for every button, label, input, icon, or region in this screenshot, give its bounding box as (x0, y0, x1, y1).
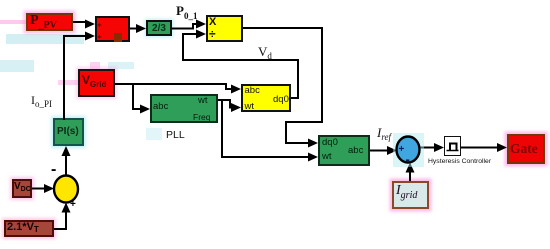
arrowhead into Gate (497, 143, 507, 152)
compression artifact smudge near PLL label (146, 128, 162, 140)
label Gate (510, 142, 538, 156)
arrowhead up into PI(s) bottom (62, 146, 71, 156)
wire PLL wt to abc-dq0 wt input (218, 100, 236, 108)
node label P_0_1 (176, 4, 197, 21)
wire I_grid up to blue circle (409, 167, 411, 181)
svg-text:-: - (51, 161, 56, 178)
wire blue circle to hysteresis (419, 147, 439, 149)
wire 2/3 to divider X input (172, 24, 200, 29)
arrowhead into dq0-abc wt input (308, 153, 318, 162)
arrowhead into divider ÷ (196, 30, 206, 39)
wire hysteresis to Gate (461, 147, 502, 149)
svg-text:-: - (406, 152, 410, 167)
arrowhead into dq0-abc dq0 input (308, 139, 318, 148)
label ÷ of divide (209, 28, 216, 40)
port label abc (348, 146, 363, 156)
gain block 2/3 (146, 20, 172, 36)
glow behind blue circle (393, 133, 424, 167)
compression artifact smudge lower (0, 60, 34, 72)
node label V_d (258, 45, 272, 61)
arrowhead into abc-dq0 abc input (231, 85, 241, 94)
hysteresis controller block (444, 136, 461, 156)
hysteresis relay icon (447, 144, 459, 151)
svg-text:+: + (399, 144, 405, 155)
wire yellow circle up to PI(s) (65, 151, 67, 176)
port label dq0 (322, 138, 338, 148)
label PI(s) (57, 127, 79, 137)
compression artifact smudge cyan near 2/3 label (108, 62, 134, 69)
arrowhead into blue circle (387, 146, 397, 155)
divide block (206, 15, 243, 42)
svg-text:+: + (70, 199, 76, 210)
arrowhead up into blue circle bottom (406, 163, 415, 173)
label P_PV (30, 14, 57, 31)
dark notch inside sum block (114, 33, 122, 42)
wire 2.1*V_T to yellow circle bottom (54, 207, 66, 229)
constant block V_Grid (78, 69, 115, 97)
port label wt (245, 102, 255, 112)
compression artifact smudge left of V_Grid (58, 80, 78, 85)
dq0 to abc block green (318, 135, 370, 166)
compression artifact smudge under P_PV (6, 34, 84, 44)
node label I_o_PI (31, 94, 52, 109)
arrowhead into hysteresis (434, 143, 444, 152)
label X of divide (209, 17, 216, 28)
compression artifact smudge streak left of P_PV (0, 20, 26, 24)
label Hysteresis Controller (428, 159, 491, 166)
label V_Grid (82, 74, 106, 89)
port label wt of PLL (198, 96, 208, 106)
label PLL (166, 130, 185, 141)
sum circle blue (397, 137, 420, 163)
abc to dq0 block yellow (241, 84, 291, 112)
arrowhead into 2/3 (136, 24, 146, 33)
PI controller block (53, 118, 84, 146)
sum circle yellow (54, 176, 78, 203)
wire branch V_Grid down to PLL abc input (133, 84, 145, 109)
Gate block (507, 134, 545, 164)
constant block P_PV (26, 13, 73, 31)
sum block (Add) red (95, 16, 130, 42)
wire V_DC to yellow circle (32, 188, 49, 190)
label 2.1*V_T (7, 222, 39, 234)
arrowhead into abc-dq0 wt input (231, 103, 241, 112)
arrowhead into divider X (196, 20, 206, 29)
port label abc (245, 86, 260, 96)
PLL block (150, 94, 218, 123)
port label abc of PLL (153, 102, 168, 112)
input block I_grid (392, 181, 429, 209)
label I_grid (396, 184, 417, 201)
port label wt (322, 152, 332, 162)
wire V_Grid to abc input of abc-dq0 block (115, 84, 236, 89)
wire P_PV to sum1 (73, 22, 90, 24)
arrowhead into sum1 input1 (85, 20, 95, 29)
wire I_o_PI: PI(s) up to sum1 input2 (64, 36, 90, 120)
node label I_ref (377, 126, 391, 142)
constant block V_DC (12, 179, 32, 198)
wire V_d feedback: dq0 out up-left to divider ÷ input (183, 34, 298, 98)
compression artifact smudge above V_Grid (90, 62, 100, 69)
arrowhead into yellow circle left (44, 184, 54, 193)
label V_DC (14, 182, 31, 193)
wire divider out to dq0 input of dq0-abc block (243, 28, 322, 143)
port label Freq of PLL (193, 113, 210, 122)
constant block 2.1*V_T (4, 220, 54, 237)
arrowhead into PLL abc input (140, 105, 150, 114)
wire branch wt down to dq0-abc wt input (222, 100, 313, 157)
wire I_ref: dq0-abc out to blue sum circle (370, 150, 392, 152)
arrowhead up into yellow circle bottom (62, 203, 71, 213)
port label dq0 (273, 95, 289, 105)
wire sum1 to 2/3 (130, 28, 141, 30)
arrowhead into sum1 input2 (85, 32, 95, 41)
